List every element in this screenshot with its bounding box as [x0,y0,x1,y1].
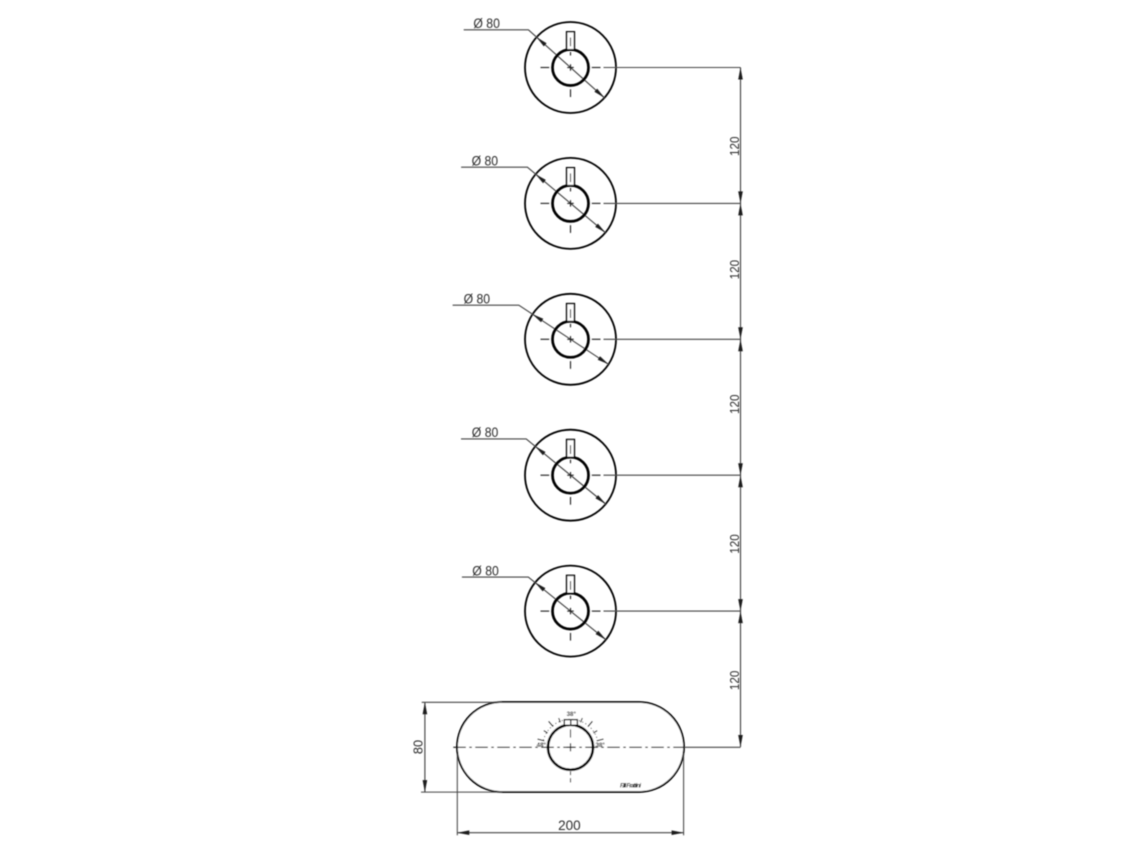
svg-text:120: 120 [727,671,742,691]
knob 5 vertical centerline [570,581,572,641]
dim 200 dimension line [457,832,683,834]
knob 1 connector line to dimension [604,67,741,69]
svg-text:38°: 38° [567,711,577,718]
knob 3 handle tab [567,304,575,322]
knob 2 horizontal centerline [541,202,601,204]
knob 1 inner circle [553,50,589,86]
knob 3 inner circle [553,321,589,357]
knob 4 inner circle [553,457,589,493]
knob 5 connector line to dimension [604,610,741,612]
knob 4 vertical centerline [570,445,572,505]
svg-text:120: 120 [727,137,742,157]
dial dotted scale arc [543,719,599,747]
svg-text:Ø 80: Ø 80 [464,291,491,307]
dimension chain arrowheads [738,68,743,748]
knob 4 diameter dimension line [461,439,606,504]
svg-text:120: 120 [727,534,742,554]
plate outline (stadium 200x80) [457,702,684,792]
knob 3 outer circle [525,294,616,385]
svg-text:200: 200 [558,818,581,833]
vertical dimension chain line [740,68,742,748]
knob 1 handle tab [567,32,575,50]
knob 5 handle tab [567,575,575,593]
plate connector line to dimension [684,746,740,748]
dial center cross [567,743,575,751]
svg-text:Ø 80: Ø 80 [472,563,499,579]
dim 80 arrowheads [423,702,428,792]
svg-text:48°: 48° [537,742,547,749]
knob 2 outer circle [525,158,616,249]
svg-text:120: 120 [727,395,742,415]
knob 4 outer circle [525,430,616,521]
knob 3 connector line to dimension [604,338,741,340]
dim 200 left extension line [456,754,458,835]
svg-text:80: 80 [410,740,425,754]
svg-text:Ø 80: Ø 80 [473,16,500,32]
dim 80 top extension line [422,701,502,703]
dim 80 dimension line [424,702,426,792]
svg-text:F.lli Frattini: F.lli Frattini [620,783,641,789]
knob 5 outer circle [525,566,616,657]
knob 1 horizontal centerline [541,67,601,69]
knob 4 horizontal centerline [541,474,601,476]
svg-text:120: 120 [727,260,742,280]
knob 4 handle tab [567,440,575,458]
knob 5 dimension arrowheads [535,583,606,640]
knob 1 outer circle [525,22,616,113]
knob 3 dimension arrowheads [533,314,609,364]
knob 1 vertical centerline [570,38,572,98]
knob 5 horizontal centerline [541,610,601,612]
dial knob circle [548,725,593,770]
knob 5 inner circle [553,593,589,629]
knob 4 connector line to dimension [604,474,741,476]
svg-text:38°: 38° [596,742,606,749]
knob 2 vertical centerline [570,173,572,233]
dial tick marks [538,718,604,741]
dim 80 bottom extension line [421,791,502,793]
svg-text:Ø 80: Ø 80 [472,425,499,441]
knob 1 dimension arrowheads [537,37,605,98]
svg-text:Ø 80: Ø 80 [472,153,499,169]
knob 3 vertical centerline [570,309,572,369]
dial vertical centerline dashes [570,729,572,782]
knob 3 diameter dimension line [453,305,609,364]
dial notch divider [570,720,572,726]
knob 2 handle tab [567,168,575,186]
knob 2 inner circle [553,185,589,221]
knob 2 connector line to dimension [604,202,741,204]
knob 1 diameter dimension line [464,30,605,98]
knob 4 dimension arrowheads [535,446,605,504]
plate horizontal centerline (dash-dot) [453,746,684,748]
knob 3 horizontal centerline [541,338,601,340]
knob 5 diameter dimension line [462,577,606,640]
dial notch window [564,720,577,726]
dim 200 right extension line [683,753,685,835]
knob 2 diameter dimension line [461,167,605,232]
dim 200 arrowheads [457,830,683,835]
knob 2 dimension arrowheads [536,174,606,232]
